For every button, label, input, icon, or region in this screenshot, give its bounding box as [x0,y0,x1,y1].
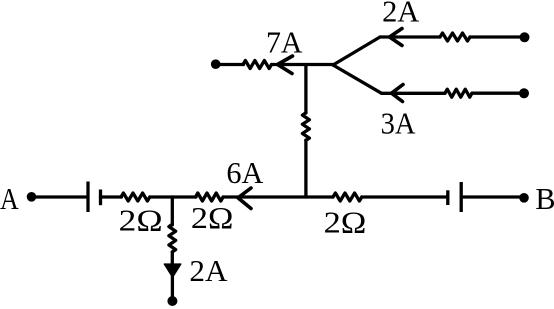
svg-text:2Ω: 2Ω [324,204,367,239]
wire triangle to bottom dot [171,276,174,301]
battery left: long plate [86,182,89,213]
svg-text:2Ω: 2Ω [119,202,163,237]
svg-text:A: A [0,181,19,216]
resistor R3 2ohm [333,193,362,201]
wire battery to B [461,195,524,198]
wire to mid-right dot [472,92,524,95]
node terminal dot A [27,192,37,202]
node terminal dot B [519,193,529,203]
wire A to battery [32,195,87,198]
svg-text:2A: 2A [382,0,420,29]
battery left: short plate [99,190,102,206]
resistor top-left (7A branch) [243,61,272,69]
resistor lower-right [445,89,472,97]
battery right: long plate [460,182,463,212]
wire fork upper diagonal [333,37,380,65]
svg-text:6A: 6A [226,155,264,190]
node terminal dot top-left [211,59,221,69]
wire fork lower diagonal [333,65,382,93]
resistor vertical bottom [169,224,176,252]
wire to top-right dot [470,35,525,38]
node terminal dot mid-right [519,88,529,98]
wire battery to R1 [101,195,122,198]
svg-text:B: B [535,181,554,216]
wire vertical bottom branch [171,197,174,225]
arrow 2A pointing left [390,29,403,46]
svg-text:2A: 2A [189,253,228,288]
battery right: short plate [446,190,449,205]
wire R2 to R3 [223,195,333,198]
node terminal dot bottom [167,296,177,306]
wire upper-right branch [380,35,440,38]
wire vertical middle branch [304,65,307,114]
wire R3 to battery right [362,195,448,198]
wire R1 to R2 [150,195,196,198]
svg-text:3A: 3A [381,105,416,140]
resistor upper-right [440,33,470,41]
wire from resistor to fork [272,63,334,66]
wire top-left horizontal [216,63,244,66]
wire lower-right branch [382,92,446,95]
wire zigzag to triangle [171,252,174,265]
svg-text:2Ω: 2Ω [191,200,234,235]
arrow 7A pointing left [278,56,293,74]
resistor R2 2ohm [196,193,224,201]
node terminal dot top-right [520,32,530,42]
wire vertical middle lower [304,140,307,197]
arrow 2A filled triangle pointing down [164,264,181,277]
svg-text:7A: 7A [266,25,303,60]
arrow 3A pointing left [392,85,404,102]
resistor vertical middle [302,113,309,141]
arrow 6A pointing left [238,188,251,209]
resistor R1 2ohm [121,193,150,201]
